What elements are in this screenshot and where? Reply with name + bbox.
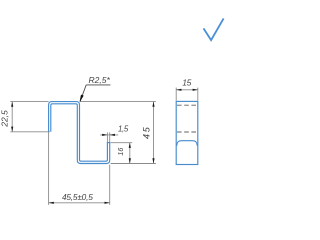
- dim line: 45.5 bottom: [49, 202, 110, 204]
- ext line: bottom outer to 16-dim and 45-dim: [111, 163, 156, 165]
- ext line: top left horizontal y=101.6: [10, 101, 48, 103]
- svg-text:45,5±0,5: 45,5±0,5: [62, 192, 93, 202]
- svg-text:1,5: 1,5: [118, 124, 129, 133]
- arrowheads 16 dim: [129, 143, 131, 148]
- ext line: vertical from left leg end down to 45.5 dim: [48, 132, 50, 205]
- svg-text:22,5: 22,5: [0, 110, 10, 128]
- dim line: 16 vertical: [129, 143, 131, 164]
- dim line: 1.5 horizontal: [100, 134, 118, 136]
- arrowheads 45 dim: [152, 102, 154, 107]
- ext line: vertical from right leg outer down to 45.5 dim: [109, 165, 111, 205]
- svg-text:45: 45: [142, 125, 152, 139]
- checkmark top right: [204, 18, 224, 40]
- svg-text:15: 15: [182, 77, 191, 87]
- arrowheads 45.5 dim: [49, 202, 54, 204]
- arrowheads 22.5 dim: [11, 89, 198, 204]
- ext line: left leg bottom y=131.8: [10, 131, 50, 133]
- side view dashed bend lines: [177, 105, 197, 132]
- leader arrowhead: [80, 95, 84, 102]
- arrowheads 15 dim: [176, 89, 181, 91]
- side view bend curve: [177, 141, 197, 146]
- ext lines: 1.5 dim verticals: [106, 132, 108, 142]
- ext line: right leg top end to 16-dim: [111, 142, 133, 144]
- front view profile (Z bent sheet): [49, 102, 110, 164]
- dim line: 22.5 vertical: [11, 102, 13, 132]
- svg-text:R2,5*: R2,5*: [89, 75, 111, 85]
- svg-text:16: 16: [116, 148, 125, 156]
- side view rectangle: [176, 101, 198, 164]
- side view ext lines for 15 dim: [175, 88, 177, 101]
- arrowheads 1.5 dim (outside): [102, 134, 107, 136]
- dim line: 15 top of side view: [176, 89, 198, 91]
- extension and dimension lines (thin gray): [10, 88, 198, 205]
- leader line R2,5: [80, 85, 110, 101]
- ext line: top right horizontal y=101.6 to 45-dim: [80, 101, 156, 103]
- dim line: 45 vertical: [153, 102, 155, 164]
